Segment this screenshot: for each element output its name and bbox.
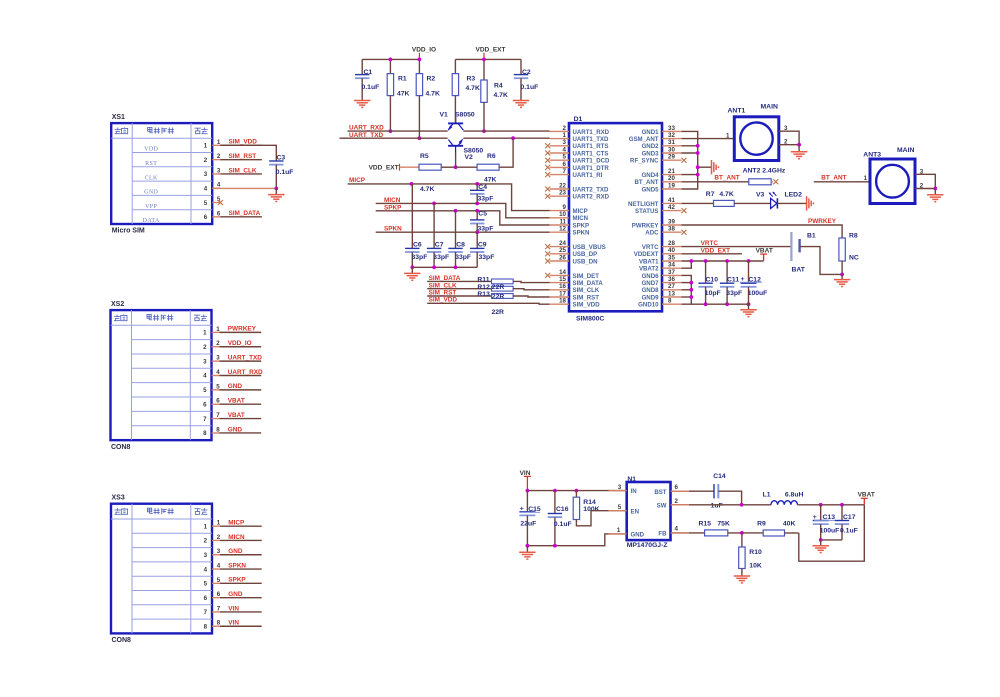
pin 24 USB_VBUS xyxy=(545,240,605,251)
IC N1 MP1470 xyxy=(627,476,671,549)
wire C14 to SW node xyxy=(718,491,741,505)
svg-text:22uF: 22uF xyxy=(520,521,536,528)
svg-text:GND: GND xyxy=(144,190,158,196)
junction GND bus xyxy=(689,288,693,292)
pin 27 GND8 xyxy=(642,283,682,294)
pin 33 GND1 xyxy=(642,125,682,136)
ground C13 xyxy=(813,540,829,553)
ground C15 xyxy=(519,546,535,559)
pin 23 UART2_RXD xyxy=(545,190,609,201)
svg-text:3: 3 xyxy=(204,552,208,559)
wire VBAT rail xyxy=(682,260,764,262)
junction VDD_IO stem xyxy=(418,58,422,62)
junction C12 top xyxy=(747,259,751,263)
pin 1 UART1_TXD xyxy=(550,132,609,143)
svg-text:22R: 22R xyxy=(492,294,505,301)
svg-text:22R: 22R xyxy=(492,309,505,316)
resistor R8 xyxy=(839,233,859,262)
pin 3 UART1_RTS xyxy=(545,139,608,150)
pin 4 XS3 xyxy=(204,562,262,573)
wire UART_RXD left xyxy=(348,130,448,132)
svg-text:RF_SYNC: RF_SYNC xyxy=(630,158,659,165)
svg-text:GND7: GND7 xyxy=(642,280,660,287)
wire N1 gnd xyxy=(527,534,626,546)
svg-text:DATA: DATA xyxy=(143,218,160,224)
junction V2 base xyxy=(454,165,458,169)
svg-text:GND: GND xyxy=(228,383,243,390)
svg-text:RST: RST xyxy=(145,161,157,167)
wire ANT3 pin3 xyxy=(915,169,935,189)
junction R8 bottom xyxy=(840,273,844,277)
svg-text:UART1_RXD: UART1_RXD xyxy=(573,129,610,136)
svg-text:XS3: XS3 xyxy=(112,495,125,502)
junction R1 bottom xyxy=(389,129,393,133)
svg-text:UART1_RI: UART1_RI xyxy=(573,172,603,179)
svg-text:CON8: CON8 xyxy=(112,637,132,644)
wire R12 to pin16 xyxy=(513,289,549,290)
pin 6 XS3 xyxy=(204,591,262,602)
svg-text:R10: R10 xyxy=(749,549,762,556)
pin 34 VBAT2 xyxy=(639,262,682,273)
svg-text:UART1_CTS: UART1_CTS xyxy=(573,150,609,157)
resistor R14 xyxy=(573,491,599,520)
ground right-facing LED xyxy=(807,196,814,210)
junction C16 bottom xyxy=(553,544,557,548)
svg-text:37: 37 xyxy=(668,269,675,276)
antenna ANT1 xyxy=(728,104,779,161)
svg-text:GND: GND xyxy=(631,532,645,539)
svg-text:USB_DP: USB_DP xyxy=(573,251,598,258)
svg-text:BST: BST xyxy=(654,489,666,496)
transistor V1 S8050 xyxy=(440,111,475,131)
pin 5 XS2 xyxy=(203,383,261,394)
pin 42 STATUS xyxy=(635,204,686,215)
svg-text:41: 41 xyxy=(668,197,675,204)
svg-text:SPKN: SPKN xyxy=(228,562,246,569)
wire ANT1 pin2 xyxy=(779,138,799,145)
wire GND branch k22 xyxy=(682,289,692,291)
capacitor C7 xyxy=(427,203,449,267)
svg-text:C16: C16 xyxy=(556,506,569,513)
svg-text:V3: V3 xyxy=(756,192,765,199)
wire VBAT2 jog xyxy=(682,261,692,268)
svg-text:1: 1 xyxy=(563,132,567,139)
svg-text:6.8uH: 6.8uH xyxy=(785,492,804,499)
pin 9 MICP xyxy=(550,204,588,215)
pin 35 VBAT1 xyxy=(639,254,682,265)
svg-text:GND2: GND2 xyxy=(642,143,660,150)
svg-text:20: 20 xyxy=(668,175,675,182)
svg-text:GND5: GND5 xyxy=(642,186,660,193)
capacitor C17 xyxy=(835,505,858,540)
svg-text:VPP: VPP xyxy=(145,204,157,210)
svg-text:UART1_DTR: UART1_DTR xyxy=(573,165,610,172)
svg-text:34: 34 xyxy=(668,262,675,269)
capacitor C4 xyxy=(470,184,493,204)
pin 7 UART1_RI xyxy=(545,168,602,179)
svg-text:C1: C1 xyxy=(364,69,373,76)
pin 3 XS2 xyxy=(203,354,262,365)
svg-text:XS2: XS2 xyxy=(111,301,124,308)
pin 20 BT_ANT xyxy=(634,175,681,186)
pin 13 GND9 xyxy=(642,290,682,301)
svg-text:NETLIGHT: NETLIGHT xyxy=(628,201,659,208)
svg-text:SIM800C: SIM800C xyxy=(576,315,604,322)
svg-text:+: + xyxy=(520,505,524,512)
resistor R6 xyxy=(477,153,499,184)
svg-text:R9: R9 xyxy=(757,520,766,527)
svg-text:SIM_RST: SIM_RST xyxy=(573,294,600,301)
svg-text:VIN: VIN xyxy=(520,470,531,477)
svg-text:7: 7 xyxy=(203,416,207,423)
wire bottom gnd rail xyxy=(691,303,748,305)
pin 40 VDDEXT xyxy=(634,247,682,258)
svg-text:VIN: VIN xyxy=(228,620,239,627)
pin 6 XS1 xyxy=(143,210,262,224)
svg-text:5: 5 xyxy=(204,581,208,588)
svg-text:31: 31 xyxy=(668,139,675,146)
svg-text:MICN: MICN xyxy=(573,215,589,222)
wire VBAT down to divider xyxy=(799,505,865,561)
svg-text:GND9: GND9 xyxy=(642,294,660,301)
svg-text:IN: IN xyxy=(631,488,637,495)
pin 21 GND4 xyxy=(642,168,682,179)
svg-text:V1: V1 xyxy=(440,111,449,118)
svg-text:10: 10 xyxy=(559,211,566,218)
svg-text:1: 1 xyxy=(617,527,621,534)
pin 1 XS1 xyxy=(144,139,262,153)
wire GND branch k23 xyxy=(682,296,692,298)
pin 7 XS3 xyxy=(204,605,262,616)
svg-text:C6: C6 xyxy=(413,242,422,249)
svg-text:MICN: MICN xyxy=(228,534,245,541)
svg-text:33pF: 33pF xyxy=(455,254,471,261)
power port VBAT out xyxy=(858,492,875,505)
wire FB to R15 xyxy=(671,532,705,534)
svg-text:39: 39 xyxy=(668,218,675,225)
wire V2 base stem xyxy=(455,153,457,168)
wire UART_RXD right xyxy=(463,130,549,132)
junction R14 top xyxy=(575,489,579,493)
pin 14 SIM_DET xyxy=(545,269,599,280)
svg-text:7: 7 xyxy=(204,609,208,616)
svg-text:MICP: MICP xyxy=(349,177,366,184)
junction C13 top xyxy=(819,503,823,507)
power port VDD_IO xyxy=(412,47,436,60)
svg-text:EN: EN xyxy=(631,508,639,515)
junction SPKP C8 tap xyxy=(454,209,458,213)
wire UART_TXD left xyxy=(340,137,448,139)
pin 41 NETLIGHT xyxy=(628,197,681,208)
pin 15 SIM_DATA xyxy=(550,276,604,287)
wire SPKP xyxy=(376,211,550,225)
pin 29 RF_SYNC xyxy=(630,154,686,165)
capacitor C5 xyxy=(470,210,493,232)
junction MICP C6 tap xyxy=(410,182,414,186)
junction C3 pin4 xyxy=(274,187,278,191)
pin 1 XS2 xyxy=(203,326,261,337)
resistor R2 xyxy=(416,59,440,138)
svg-text:36: 36 xyxy=(668,276,675,283)
pin 7 XS2 xyxy=(203,412,261,423)
pin 3 XS3 xyxy=(204,548,262,559)
svg-text:ANT1: ANT1 xyxy=(728,107,746,114)
svg-text:7: 7 xyxy=(563,168,567,175)
resistor R7 xyxy=(706,191,734,206)
ground under C1 xyxy=(354,101,370,108)
pin 16 SIM_CLK xyxy=(550,283,600,294)
svg-text:40K: 40K xyxy=(783,521,796,528)
svg-text:VDD_IO: VDD_IO xyxy=(412,47,436,54)
wire L1 to VBAT xyxy=(798,504,865,506)
svg-text:C11: C11 xyxy=(727,276,739,283)
svg-text:C9: C9 xyxy=(478,242,487,249)
svg-text:6: 6 xyxy=(203,401,207,408)
svg-text:SIM_DATA: SIM_DATA xyxy=(573,280,604,287)
wire audio ground rail xyxy=(412,266,477,268)
pin 1 XS3 xyxy=(204,519,262,530)
svg-text:BAT: BAT xyxy=(792,266,806,273)
svg-text:4.7K: 4.7K xyxy=(494,92,508,99)
inductor L1 6.8uH xyxy=(763,492,804,505)
wire BT_ANT to ANT2 xyxy=(682,181,749,183)
svg-text:C14: C14 xyxy=(713,473,726,480)
resistor R11 xyxy=(477,277,513,284)
svg-text:3: 3 xyxy=(618,484,622,491)
svg-text:CON8: CON8 xyxy=(111,444,131,451)
capacitor C8 xyxy=(448,211,471,267)
svg-text:GND1: GND1 xyxy=(642,129,660,136)
svg-text:27: 27 xyxy=(668,283,675,290)
svg-text:SIM_VDD: SIM_VDD xyxy=(229,139,258,146)
ground ANT1 xyxy=(791,145,807,159)
wire SPKN xyxy=(376,231,550,233)
svg-text:3: 3 xyxy=(563,139,567,146)
svg-text:MP1470GJ-Z: MP1470GJ-Z xyxy=(627,542,668,549)
pin stubs N1 xyxy=(609,491,690,534)
pin 5 XS1 xyxy=(145,196,223,210)
ground ANT3 xyxy=(927,189,943,202)
svg-text:2: 2 xyxy=(203,344,207,351)
ground R8 xyxy=(834,274,850,286)
junction ANT3 gnd xyxy=(933,187,937,191)
svg-text:33pF: 33pF xyxy=(478,196,494,203)
wire R7 to LED xyxy=(734,202,770,204)
svg-text:GND: GND xyxy=(228,548,243,555)
svg-text:VIN: VIN xyxy=(228,605,239,612)
svg-text:CLK: CLK xyxy=(145,175,158,181)
svg-text:USB_VBUS: USB_VBUS xyxy=(573,244,606,251)
svg-text:SPKN: SPKN xyxy=(573,230,590,237)
wire GND1 bus xyxy=(682,131,698,189)
svg-text:1: 1 xyxy=(203,330,207,337)
svg-text:VBAT1: VBAT1 xyxy=(639,258,659,265)
svg-text:3: 3 xyxy=(204,171,208,178)
pin 37 GND6 xyxy=(642,269,682,280)
svg-text:21: 21 xyxy=(668,168,675,175)
svg-text:C3: C3 xyxy=(277,154,286,161)
pin 2 XS3 xyxy=(204,534,262,545)
svg-text:C4: C4 xyxy=(478,184,487,191)
svg-text:35: 35 xyxy=(668,254,675,261)
svg-text:10K: 10K xyxy=(749,563,762,570)
svg-text:SPKP: SPKP xyxy=(228,577,246,584)
svg-text:0.1uF: 0.1uF xyxy=(840,528,858,535)
svg-text:VDD_IO: VDD_IO xyxy=(228,340,252,347)
svg-text:R4: R4 xyxy=(494,83,503,90)
svg-text:9: 9 xyxy=(563,204,567,211)
svg-text:XS1: XS1 xyxy=(112,114,125,121)
svg-text:33pF: 33pF xyxy=(726,290,742,297)
junction C10 bottom xyxy=(704,302,708,306)
svg-text:38: 38 xyxy=(668,226,675,233)
svg-text:C10: C10 xyxy=(706,276,719,283)
resistor ANT2 2.4GHz xyxy=(743,168,786,185)
svg-text:R5: R5 xyxy=(420,153,429,160)
wire UART_TXD right xyxy=(463,137,549,139)
svg-text:16: 16 xyxy=(559,283,566,290)
svg-text:1: 1 xyxy=(864,175,868,182)
svg-text:SIM_DET: SIM_DET xyxy=(573,273,600,280)
svg-text:GND3: GND3 xyxy=(642,150,660,157)
power port VDD_EXT left xyxy=(369,164,400,172)
svg-text:23: 23 xyxy=(559,190,566,197)
battery B1 xyxy=(791,232,816,273)
svg-text:S8050: S8050 xyxy=(455,111,475,118)
resistor R4 xyxy=(481,59,508,131)
wire C17 to C13 bottom xyxy=(821,539,842,541)
wire ANT3 pin2 xyxy=(915,183,935,190)
svg-text:BT_ANT: BT_ANT xyxy=(821,175,846,182)
power port VIN xyxy=(520,470,531,491)
pin numbers N1 xyxy=(617,484,679,534)
svg-text:SIM_CLK: SIM_CLK xyxy=(573,287,600,294)
svg-text:1: 1 xyxy=(204,143,208,150)
svg-text:VBAT: VBAT xyxy=(858,492,875,499)
pin 22 UART2_TXD xyxy=(545,182,609,193)
wire GSM_ANT to ANT1 xyxy=(682,138,735,140)
capacitor C15 polarized xyxy=(519,491,540,546)
svg-text:GND10: GND10 xyxy=(638,302,659,309)
wire BST to C14 xyxy=(671,490,715,492)
svg-text:4: 4 xyxy=(675,526,679,533)
svg-text:MICP: MICP xyxy=(228,519,245,526)
junction ANT1 gnd xyxy=(797,143,801,147)
wire R13 to pin17 xyxy=(513,296,549,297)
junction SW C14 xyxy=(740,503,744,507)
pin 4 XS1 xyxy=(144,182,221,196)
junction rail C6 xyxy=(410,265,414,269)
svg-text:22: 22 xyxy=(559,182,566,189)
svg-text:6: 6 xyxy=(563,161,567,168)
svg-text:8: 8 xyxy=(668,298,672,305)
svg-text:33pF: 33pF xyxy=(479,254,495,261)
svg-text:SW: SW xyxy=(657,503,667,510)
wire R6 to TXD xyxy=(499,138,513,167)
junction MICN C7 tap xyxy=(432,202,436,206)
svg-text:PWRKEY: PWRKEY xyxy=(632,222,659,229)
svg-text:STATUS: STATUS xyxy=(635,208,658,215)
header text XS1 xyxy=(115,128,128,134)
svg-text:5: 5 xyxy=(563,154,567,161)
svg-text:13: 13 xyxy=(668,290,675,297)
wire ANT1 pin3 xyxy=(779,125,799,145)
svg-text:17: 17 xyxy=(559,290,566,297)
svg-text:V2: V2 xyxy=(465,154,474,161)
pin 3 XS1 xyxy=(145,167,262,181)
svg-text:4.7K: 4.7K xyxy=(426,90,440,97)
svg-text:R6: R6 xyxy=(487,153,496,160)
svg-text:4: 4 xyxy=(563,146,567,153)
svg-text:Micro SIM: Micro SIM xyxy=(112,228,145,235)
wire NETLIGHT to R7 xyxy=(682,202,714,204)
svg-text:MAIN: MAIN xyxy=(897,147,914,154)
wire BT_ANT to ANT3 xyxy=(814,181,870,183)
capacitor C9 xyxy=(470,232,494,267)
power port VDD_EXT top xyxy=(476,47,506,60)
wire VIN rail xyxy=(527,490,626,492)
wire GND6-10 bus xyxy=(682,275,692,304)
svg-text:D1: D1 xyxy=(574,116,583,123)
wire SIM_RST xyxy=(427,295,491,297)
svg-text:R15: R15 xyxy=(699,520,712,527)
svg-text:VBAT: VBAT xyxy=(228,398,245,405)
header text XS3 xyxy=(115,508,128,514)
svg-text:ANT2 2.4GHz: ANT2 2.4GHz xyxy=(743,168,786,175)
capacitor C16 xyxy=(548,491,572,546)
svg-text:UART1_TXD: UART1_TXD xyxy=(573,136,609,143)
capacitor C2 xyxy=(514,59,538,100)
no connect ANT2 xyxy=(771,179,778,184)
resistor R12 xyxy=(477,284,513,291)
pin 6 XS2 xyxy=(203,398,261,409)
svg-text:SIM_VDD: SIM_VDD xyxy=(573,302,601,309)
wire SIM_DATA xyxy=(427,280,491,282)
svg-text:33pF: 33pF xyxy=(478,225,494,232)
pin 18 SIM_VDD xyxy=(550,298,601,309)
ground C12 xyxy=(740,304,756,316)
wire battery to R8 gnd xyxy=(800,247,843,275)
pin 5 UART1_DCD xyxy=(545,154,610,165)
junction GND4 xyxy=(696,173,700,177)
wire R5 to V2 base xyxy=(441,166,455,168)
wire GND2 branch xyxy=(682,145,698,147)
svg-text:4.7K: 4.7K xyxy=(719,191,733,198)
svg-text:ADC: ADC xyxy=(645,230,659,237)
ground XS1 xyxy=(268,188,284,201)
svg-text:C5: C5 xyxy=(478,210,487,217)
pin 17 SIM_RST xyxy=(550,290,600,301)
svg-text:33pF: 33pF xyxy=(412,254,428,261)
pin 5 XS3 xyxy=(204,577,262,588)
wire V2 base to R6 xyxy=(456,166,478,168)
pin 8 GND10 xyxy=(638,298,681,309)
svg-text:75K: 75K xyxy=(717,520,730,527)
pin 36 GND7 xyxy=(642,276,682,287)
svg-text:47K: 47K xyxy=(484,177,497,184)
antenna ANT3 xyxy=(863,147,915,204)
wire SIM_VDD xyxy=(427,302,549,305)
svg-text:R1: R1 xyxy=(398,76,407,83)
wire VDD_EXT rail xyxy=(455,58,521,60)
pin 6 UART1_DTR xyxy=(545,161,609,172)
svg-text:R2: R2 xyxy=(427,76,436,83)
ground right-facing GSM xyxy=(712,160,719,174)
wire MICN xyxy=(376,203,550,217)
svg-text:UART2_TXD: UART2_TXD xyxy=(573,186,609,193)
junction VDD_EXT stem xyxy=(482,58,486,62)
svg-text:PWRKEY: PWRKEY xyxy=(808,218,837,225)
